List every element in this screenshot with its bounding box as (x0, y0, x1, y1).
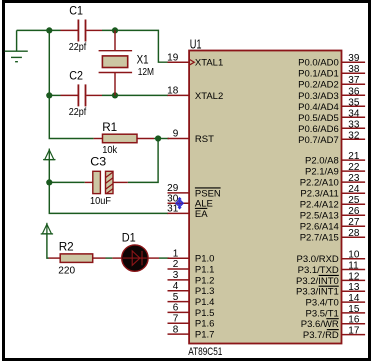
svg-text:P1.6: P1.6 (195, 319, 215, 330)
svg-text:P2.2/A10: P2.2/A10 (300, 178, 339, 189)
svg-text:D1: D1 (122, 231, 136, 245)
label C3 (90, 155, 106, 169)
svg-text:27: 27 (348, 217, 360, 228)
ground (5, 30, 28, 61)
value 10uF (90, 196, 111, 207)
wire D1 to P1.0 pin (159, 257, 169, 259)
svg-text:37: 37 (348, 75, 360, 86)
wire C2 right to XTAL2 pin (102, 94, 168, 96)
svg-text:RST: RST (195, 134, 214, 145)
svg-text:EA: EA (195, 209, 208, 220)
svg-text:P3.6/WR: P3.6/WR (301, 319, 339, 330)
svg-text:P3.5/T1: P3.5/T1 (306, 308, 339, 319)
wire R1 right to RST pin (154, 138, 169, 140)
pin 24 P2.3/A11 (300, 184, 365, 200)
svg-text:25: 25 (348, 195, 360, 206)
pin 25 P2.4/A12 (300, 195, 365, 211)
svg-text:17: 17 (348, 326, 360, 337)
svg-text:P1.1: P1.1 (195, 265, 215, 276)
svg-text:P2.1/A9: P2.1/A9 (305, 167, 339, 178)
wire left bus C1 to R1 (49, 30, 93, 138)
value 10k (102, 145, 118, 156)
value 220 (58, 266, 75, 277)
pin 10 P3.0/RXD (297, 250, 366, 266)
svg-text:P2.6/A14: P2.6/A14 (300, 222, 339, 233)
svg-text:P3.3/INT1: P3.3/INT1 (296, 287, 339, 298)
label R1 (102, 120, 117, 134)
label AT89C51 (188, 346, 222, 358)
svg-text:P1.3: P1.3 (195, 286, 215, 297)
svg-text:18: 18 (167, 86, 179, 97)
pin 26 P2.5/A13 (300, 206, 365, 222)
svg-text:34: 34 (348, 108, 360, 119)
origin marker at ALE pin (176, 198, 184, 209)
svg-text:U1: U1 (190, 37, 202, 52)
svg-text:16: 16 (348, 315, 360, 326)
svg-text:P3.0/RXD: P3.0/RXD (297, 254, 339, 265)
svg-text:P1.0: P1.0 (195, 254, 215, 265)
diode D1 (112, 245, 159, 271)
svg-text:9: 9 (173, 129, 179, 140)
svg-text:36: 36 (348, 86, 360, 97)
svg-text:C3: C3 (90, 155, 106, 169)
svg-text:35: 35 (348, 97, 360, 108)
svg-text:33: 33 (348, 119, 360, 130)
svg-text:21: 21 (348, 151, 360, 162)
wire ground to C1 (17, 29, 61, 31)
svg-text:5: 5 (173, 292, 179, 303)
pin 39 P0.0/AD0 (298, 53, 365, 68)
svg-text:P2.4/A12: P2.4/A12 (300, 200, 339, 211)
label X1 (137, 53, 149, 67)
power symbol VCC (top) (43, 149, 55, 160)
pin 37 P0.2/AD2 (298, 75, 365, 91)
pin 32 P0.7/AD7 (298, 130, 365, 146)
svg-text:12: 12 (348, 271, 360, 282)
svg-text:10uF: 10uF (90, 196, 111, 207)
svg-text:XTAL2: XTAL2 (195, 91, 223, 102)
svg-text:39: 39 (348, 53, 360, 64)
wire R2 to D1 (106, 257, 113, 259)
pin 31 EA (167, 204, 208, 220)
svg-text:XTAL1: XTAL1 (195, 58, 223, 69)
pin 1 P1.0 (168, 248, 215, 264)
label C2 (69, 69, 83, 83)
pin 34 P0.5/AD5 (298, 108, 365, 124)
label D1 (122, 231, 136, 245)
svg-text:38: 38 (348, 64, 360, 75)
svg-text:X1: X1 (137, 53, 149, 67)
wire power1 stem to C3 node (48, 159, 50, 183)
svg-text:P3.1/TXD: P3.1/TXD (298, 265, 339, 276)
svg-text:P0.3/AD3: P0.3/AD3 (298, 91, 339, 102)
pin 12 P3.2/INT0 (296, 271, 365, 287)
pin 16 P3.6/WR (301, 315, 365, 331)
pin 38 P0.1/AD1 (298, 64, 365, 80)
svg-text:4: 4 (173, 281, 179, 292)
pin 30 ALE (167, 193, 213, 209)
svg-text:P0.5/AD5: P0.5/AD5 (298, 113, 339, 124)
svg-text:23: 23 (348, 173, 360, 184)
svg-text:P1.5: P1.5 (195, 308, 215, 319)
svg-text:R1: R1 (102, 120, 117, 134)
svg-text:P0.1/AD1: P0.1/AD1 (298, 69, 339, 80)
pin 2 P1.1 (168, 259, 215, 275)
crystal X1 (99, 30, 133, 95)
svg-text:P3.4/T0: P3.4/T0 (306, 298, 339, 309)
pin 6 P1.5 (168, 303, 215, 319)
svg-text:P2.5/A13: P2.5/A13 (300, 211, 339, 222)
pin 27 P2.6/A14 (300, 217, 365, 233)
wire C3 node to C3 left (49, 181, 85, 183)
IC U1 AT89C51 body (189, 51, 341, 344)
svg-text:P2.3/A11: P2.3/A11 (300, 189, 338, 200)
svg-text:AT89C51: AT89C51 (188, 346, 222, 358)
svg-text:1: 1 (173, 248, 179, 259)
svg-text:32: 32 (348, 130, 360, 141)
svg-text:19: 19 (167, 52, 179, 63)
svg-text:R2: R2 (59, 240, 74, 254)
value 22pf (C2) (69, 107, 87, 118)
power symbol VCC (bottom) (41, 223, 53, 234)
pin 17 P3.7/RD (303, 326, 365, 342)
value 22pf (69, 42, 87, 53)
capacitor C1 (61, 20, 103, 42)
pin 36 P0.3/AD3 (298, 86, 365, 102)
pin 14 P3.4/T0 (306, 293, 366, 309)
svg-text:10: 10 (348, 250, 360, 261)
pin 23 P2.2/A10 (300, 173, 365, 189)
pin 5 P1.4 (168, 292, 215, 308)
capacitor C2 (61, 84, 103, 106)
pin 9 RST (168, 129, 215, 145)
svg-text:P3.2/INT0: P3.2/INT0 (296, 276, 339, 287)
pin 33 P0.6/AD6 (298, 119, 365, 135)
svg-text:P2.0/A8: P2.0/A8 (305, 156, 339, 167)
resistor R1 (94, 134, 154, 143)
pin 22 P2.1/A9 (305, 162, 365, 178)
pin 13 P3.3/INT1 (296, 282, 365, 298)
pin 35 P0.4/AD4 (298, 97, 365, 113)
svg-text:C2: C2 (69, 69, 83, 83)
node C1 right / crystal top (112, 27, 118, 33)
node C2 right / crystal bottom (112, 92, 118, 98)
svg-text:7: 7 (173, 313, 179, 324)
label C1 (69, 4, 83, 18)
svg-text:P0.6/AD6: P0.6/AD6 (298, 124, 339, 135)
wire bus to C2 left (49, 94, 60, 96)
label R2 (59, 240, 74, 254)
svg-text:P0.7/AD7: P0.7/AD7 (298, 135, 339, 146)
svg-text:14: 14 (348, 293, 360, 304)
wire RST node down to C3 right (128, 139, 158, 183)
svg-text:8: 8 (173, 324, 179, 335)
pin 3 P1.2 (168, 270, 215, 286)
pin 28 P2.7/A15 (300, 228, 365, 244)
label U1 (190, 37, 202, 52)
pin 15 P3.5/T1 (306, 304, 366, 320)
svg-text:26: 26 (348, 206, 360, 217)
resistor R2 (49, 254, 106, 263)
pin 4 P1.3 (168, 281, 215, 297)
pin 18 XTAL2 (167, 86, 223, 102)
pin 11 P3.1/TXD (298, 261, 365, 277)
svg-text:3: 3 (173, 270, 179, 281)
svg-text:24: 24 (348, 184, 360, 195)
node RST / R1 / C3 (155, 135, 161, 141)
wire C3 node down to EA pin (49, 182, 168, 213)
svg-text:28: 28 (348, 228, 360, 239)
svg-text:P1.2: P1.2 (195, 275, 215, 286)
svg-text:P0.0/AD0: P0.0/AD0 (298, 58, 339, 69)
svg-text:P1.4: P1.4 (195, 297, 215, 308)
pin 7 P1.6 (168, 313, 215, 329)
pin 21 P2.0/A8 (305, 151, 365, 167)
wire C1 to XTAL1 pin (102, 30, 168, 62)
svg-text:13: 13 (348, 282, 360, 293)
svg-text:P1.7: P1.7 (195, 330, 215, 341)
svg-text:22pf: 22pf (69, 42, 87, 53)
svg-text:22: 22 (348, 162, 360, 173)
pin 29 PSEN (167, 183, 221, 199)
clock symbol XTAL1 (190, 60, 195, 65)
svg-text:22pf: 22pf (69, 107, 87, 118)
svg-text:6: 6 (173, 303, 179, 314)
svg-text:11: 11 (348, 261, 359, 272)
svg-text:P2.7/A15: P2.7/A15 (300, 233, 339, 244)
pin 8 P1.7 (168, 324, 215, 340)
svg-text:220: 220 (58, 266, 75, 277)
svg-text:2: 2 (173, 259, 179, 270)
svg-text:12M: 12M (138, 67, 154, 78)
svg-text:P0.2/AD2: P0.2/AD2 (298, 80, 339, 91)
svg-text:15: 15 (348, 304, 360, 315)
svg-text:31: 31 (167, 204, 179, 215)
svg-text:P0.4/AD4: P0.4/AD4 (298, 102, 339, 113)
wire power2 stem to R2 (47, 234, 49, 258)
node VCC / C3 left (46, 179, 52, 185)
pin 19 XTAL1 (167, 52, 223, 68)
node C2 left / bus (46, 92, 52, 98)
value 12M (138, 67, 154, 78)
svg-text:P3.7/RD: P3.7/RD (303, 330, 339, 341)
capacitor C3 (85, 171, 128, 193)
svg-text:C1: C1 (69, 4, 83, 18)
node C1 left / ground (46, 27, 52, 33)
